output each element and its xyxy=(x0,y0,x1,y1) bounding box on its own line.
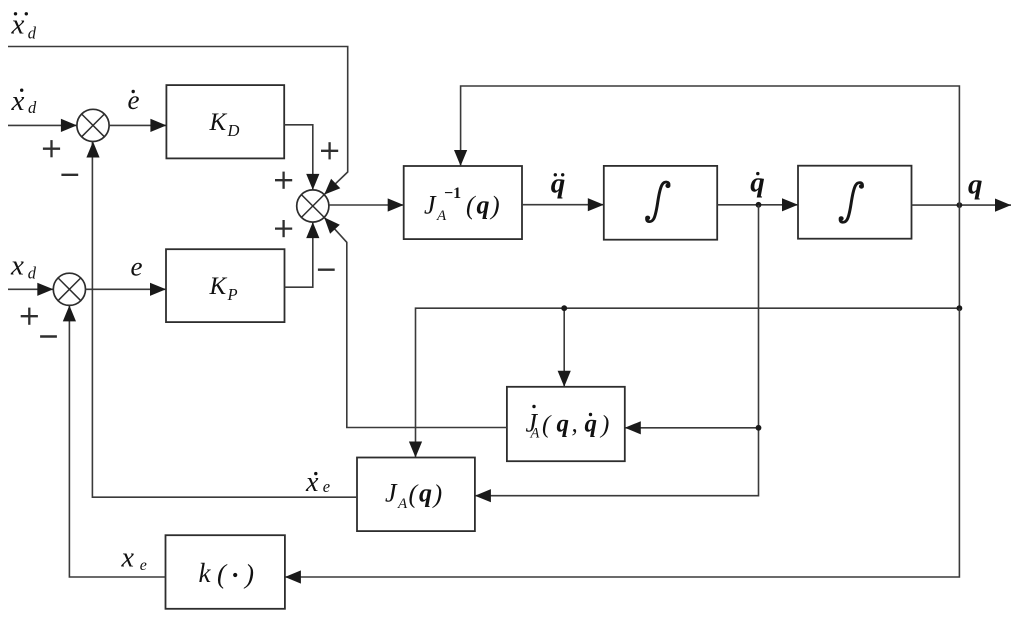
wire q top feedback xyxy=(461,86,960,205)
wire KP out to S3 xyxy=(285,222,313,287)
svg-text:K: K xyxy=(209,109,228,136)
node xdot_d label xyxy=(20,89,23,92)
svg-text:−1: −1 xyxy=(444,185,461,202)
svg-text:e: e xyxy=(128,85,140,115)
svg-text:d: d xyxy=(28,98,37,117)
summing junction S2 xyxy=(53,273,85,305)
svg-text:J: J xyxy=(424,191,437,220)
wire q output xyxy=(912,204,1012,206)
svg-text:A: A xyxy=(397,496,408,512)
node q mid junction xyxy=(957,305,963,311)
svg-text:A: A xyxy=(530,426,540,442)
svg-text:k: k xyxy=(199,558,212,588)
sign minus Jdot at S3 xyxy=(318,269,335,271)
svg-text:): ) xyxy=(489,191,500,220)
svg-text:q: q xyxy=(477,191,490,220)
wire x_d input xyxy=(8,288,53,290)
sign plus S2 input xyxy=(21,315,38,317)
wire KD out to S3 xyxy=(284,125,313,190)
wire edot S1 to KD xyxy=(109,124,166,126)
block integrator1 xyxy=(604,166,717,240)
svg-text:x: x xyxy=(10,249,24,281)
svg-text:P: P xyxy=(227,285,238,304)
wire q to k() xyxy=(285,308,960,577)
block JAinv xyxy=(404,166,522,239)
wire S3 to JAinv xyxy=(329,204,404,206)
sign minus S1 feedback xyxy=(61,174,78,176)
svg-text:): ) xyxy=(243,559,254,589)
svg-text:D: D xyxy=(227,121,240,140)
wire q mid feedback xyxy=(416,205,960,458)
wire qdot branch to JAdot right xyxy=(625,427,759,429)
svg-text:q: q xyxy=(968,168,983,200)
wire qdd JAinv to int1 xyxy=(522,204,604,206)
block KP xyxy=(166,249,285,322)
node qdd label xyxy=(554,173,557,176)
svg-text:x: x xyxy=(121,543,135,574)
svg-text:): ) xyxy=(599,412,609,439)
block k() xyxy=(166,535,285,609)
node qdot junction xyxy=(756,202,762,208)
block JAq xyxy=(357,458,475,532)
wire e S2 to KP xyxy=(86,288,167,290)
svg-text:x: x xyxy=(11,85,25,117)
svg-text:q: q xyxy=(419,479,432,508)
svg-text:): ) xyxy=(432,480,443,509)
block KD xyxy=(166,85,284,158)
block integrator2 xyxy=(798,166,912,239)
node q junction xyxy=(957,202,963,208)
wire xdd_d feedforward xyxy=(8,47,348,195)
wire JAdot out to S3 xyxy=(324,217,507,427)
svg-text:q: q xyxy=(551,167,566,199)
svg-text:x: x xyxy=(305,467,319,498)
node JAdot branch junction xyxy=(561,305,567,311)
node edot label xyxy=(132,90,135,93)
sign plus KP at S3 xyxy=(275,227,292,229)
wire xdot_e feedback xyxy=(92,142,357,498)
svg-text:e: e xyxy=(131,252,143,282)
block JAdot xyxy=(507,387,625,461)
svg-text:,: , xyxy=(572,411,578,438)
wire xdot_d input xyxy=(8,124,77,126)
sign plus xdd at S3 xyxy=(321,150,338,152)
wire qdot to JAdot xyxy=(475,205,759,496)
svg-text:A: A xyxy=(436,208,447,224)
sign minus S2 feedback xyxy=(40,335,57,337)
wire to JAdot top xyxy=(563,308,565,387)
svg-text:d: d xyxy=(28,263,37,282)
svg-text:d: d xyxy=(28,23,37,42)
svg-text:e: e xyxy=(323,477,330,496)
node qdot label xyxy=(756,172,759,175)
node xdot_e label xyxy=(314,472,317,475)
svg-text:x: x xyxy=(11,8,25,40)
summing junction S3 xyxy=(297,190,329,222)
svg-text:K: K xyxy=(209,273,228,300)
node qdot branch junction xyxy=(756,425,762,431)
svg-text:J: J xyxy=(385,479,398,508)
sign plus KD at S3 xyxy=(275,179,292,181)
svg-text:(: ( xyxy=(409,480,419,509)
summing junction S1 xyxy=(77,109,109,141)
svg-text:q: q xyxy=(750,166,765,198)
svg-text:(: ( xyxy=(466,191,476,220)
node xdd_d label xyxy=(14,12,17,15)
sign plus S1 input xyxy=(43,148,60,150)
wire x_e feedback xyxy=(69,305,165,577)
svg-text:e: e xyxy=(140,557,147,574)
svg-text:q: q xyxy=(585,411,598,438)
wire qdot int1 to int2 xyxy=(717,204,798,206)
svg-text:q: q xyxy=(557,411,570,438)
